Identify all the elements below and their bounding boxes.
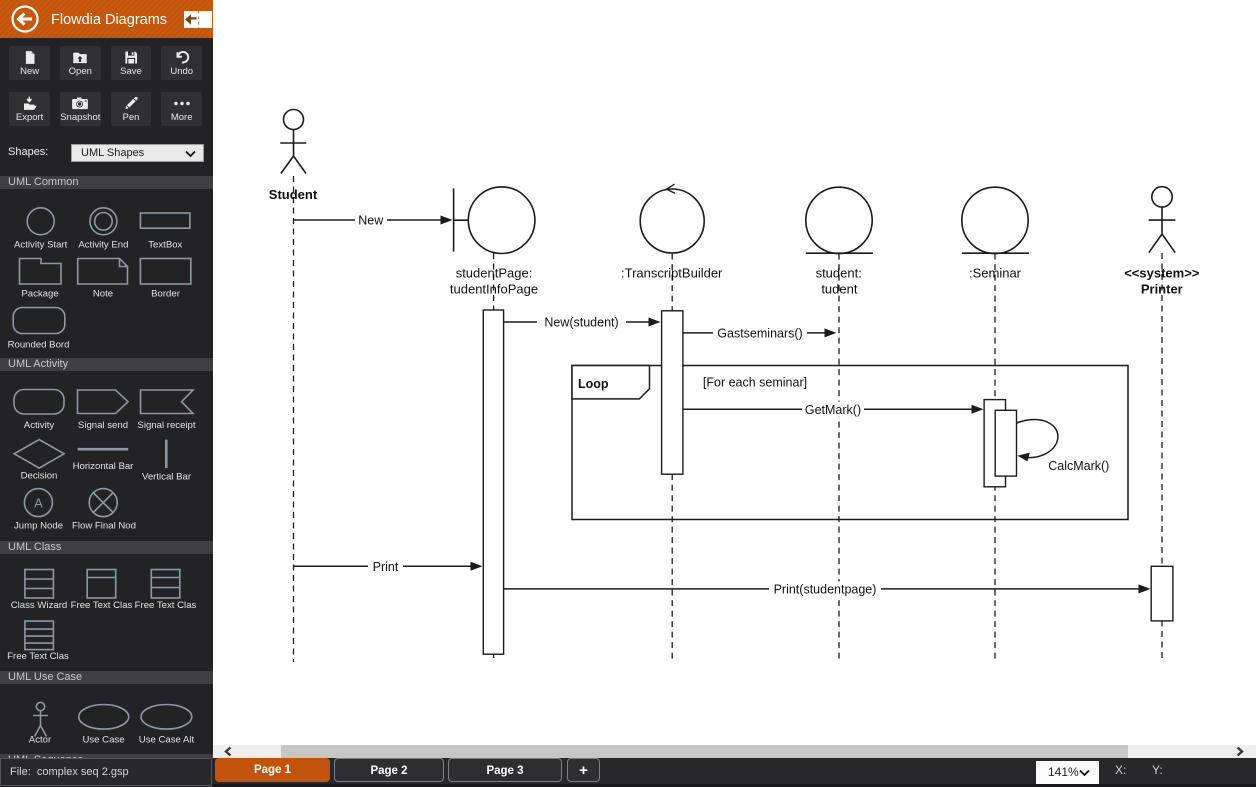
lifeline studentPage [493, 253, 495, 659]
message CalcMark self call [1017, 419, 1110, 472]
zoom dropdown [1036, 761, 1099, 785]
More button [161, 92, 202, 126]
note tool [78, 259, 128, 285]
app header bar [0, 0, 213, 38]
svg-text:Free Text Clas: Free Text Clas [7, 651, 69, 662]
flow final node tool [89, 489, 117, 517]
svg-text:Student: Student [269, 187, 318, 202]
Save button [111, 46, 152, 80]
svg-text:Actor: Actor [29, 735, 52, 746]
activation bar TranscriptBuilder [662, 311, 683, 474]
collapse icon [184, 11, 212, 28]
svg-text:Horizontal Bar: Horizontal Bar [73, 461, 135, 472]
Open button [60, 46, 101, 80]
free text class tool 1 [87, 570, 116, 599]
svg-text:tudentInfoPage: tudentInfoPage [450, 281, 538, 296]
activity start tool [27, 208, 54, 235]
svg-text:Border: Border [151, 289, 181, 300]
svg-text:Activity Start: Activity Start [14, 240, 68, 251]
svg-text::TranscriptBuilder: :TranscriptBuilder [621, 265, 723, 280]
Pen button [111, 92, 152, 126]
horizontal bar tool [78, 448, 129, 451]
svg-text:CalcMark(): CalcMark() [1048, 459, 1109, 473]
free text class tool 2 [151, 570, 180, 599]
add page tab [567, 758, 600, 783]
actor Printer [1149, 187, 1176, 253]
svg-text:Jump Node: Jump Node [14, 521, 63, 532]
use case alt tool [141, 705, 192, 730]
message GetMark() [683, 402, 984, 417]
svg-text::Seminar: :Seminar [969, 265, 1022, 280]
svg-text:tudent: tudent [821, 281, 858, 296]
rounded border tool [13, 308, 65, 334]
jump node tool [24, 489, 52, 517]
section headers [0, 176, 213, 189]
lifeline Student [293, 176, 295, 662]
svg-text:Decision: Decision [21, 471, 58, 482]
svg-text:Use Case Alt: Use Case Alt [139, 735, 195, 746]
svg-text:student:: student: [816, 265, 862, 280]
message Print [294, 559, 483, 574]
svg-text:Package: Package [21, 289, 58, 300]
page 2 tab [334, 758, 444, 783]
border tool [140, 259, 190, 285]
page tab bar [213, 758, 1256, 787]
svg-text:New(student): New(student) [544, 316, 618, 330]
svg-text:TextBox: TextBox [148, 240, 182, 251]
canvas [213, 0, 1256, 745]
svg-text:Use Case: Use Case [82, 735, 124, 746]
svg-text:Activity: Activity [24, 420, 55, 431]
entity object Seminar [962, 187, 1029, 253]
lifeline student:tudent [838, 254, 840, 661]
signal send tool [78, 390, 129, 414]
page 1 tab (active) [215, 758, 330, 783]
lifeline Seminar [994, 254, 996, 661]
message Gastseminars() [683, 325, 837, 340]
message New(student) [504, 315, 661, 330]
svg-text:studentPage:: studentPage: [456, 265, 533, 280]
class wizard tool [25, 570, 54, 599]
svg-text:Loop: Loop [578, 377, 609, 391]
use case tool [79, 705, 129, 730]
shapes dropdown row [0, 135, 213, 171]
activity end tool [90, 208, 117, 235]
lifeline Printer [1161, 253, 1163, 661]
textbox tool [140, 213, 190, 228]
actor tool [33, 702, 48, 736]
activation bar studentPage [483, 310, 503, 654]
activation bar Seminar inner [995, 410, 1016, 476]
svg-text:Print: Print [373, 560, 399, 574]
file bar [0, 758, 212, 786]
svg-text:GetMark(): GetMark() [805, 403, 861, 417]
svg-text:Flow Final Nod: Flow Final Nod [72, 521, 136, 532]
signal receipt tool [141, 390, 194, 414]
activation bar Printer [1151, 566, 1173, 621]
sidebar shape icons overlay [0, 188, 213, 754]
activity tool [14, 390, 64, 415]
actor Student [280, 110, 306, 174]
svg-text:Signal receipt: Signal receipt [137, 420, 195, 431]
svg-text:Signal send: Signal send [78, 420, 128, 431]
Snapshot button [60, 92, 101, 126]
message Print(studentpage) [504, 581, 1151, 596]
message New [294, 213, 453, 228]
Export button [9, 92, 50, 126]
svg-text:Print(studentpage): Print(studentpage) [774, 582, 877, 596]
svg-text:Vertical Bar: Vertical Bar [142, 472, 192, 483]
svg-text:Printer: Printer [1141, 282, 1183, 297]
svg-text:Free Text Clas: Free Text Clas [71, 600, 133, 611]
svg-text:Note: Note [93, 289, 113, 300]
activation bar Seminar outer [984, 400, 1005, 487]
package tool [20, 259, 62, 285]
svg-text:Class Wizard: Class Wizard [11, 600, 68, 611]
svg-text:A: A [34, 495, 43, 510]
loop fragment [572, 366, 1128, 520]
decision tool [14, 440, 64, 469]
svg-text:New: New [358, 214, 384, 228]
svg-text:Rounded Bord: Rounded Bord [8, 340, 70, 351]
horizontal scrollbar [213, 745, 1256, 758]
boundary object studentPage [454, 187, 535, 254]
Undo button [161, 46, 202, 80]
svg-text:[For each seminar]: [For each seminar] [703, 376, 807, 390]
back button [11, 5, 39, 33]
free text class tool 3 [25, 621, 54, 650]
svg-text:Gastseminars(): Gastseminars() [717, 326, 802, 340]
New button [9, 46, 50, 80]
page 3 tab [448, 758, 562, 783]
entity object student:tudent [806, 187, 873, 253]
lifeline TranscriptBuilder [671, 254, 673, 661]
svg-text:Activity End: Activity End [78, 240, 128, 251]
svg-text:<<system>>: <<system>> [1124, 266, 1200, 281]
svg-text:Free Text Clas: Free Text Clas [135, 600, 197, 611]
sidebar panel [0, 0, 213, 787]
control object TranscriptBuilder [640, 184, 704, 253]
vertical bar tool [165, 440, 168, 469]
